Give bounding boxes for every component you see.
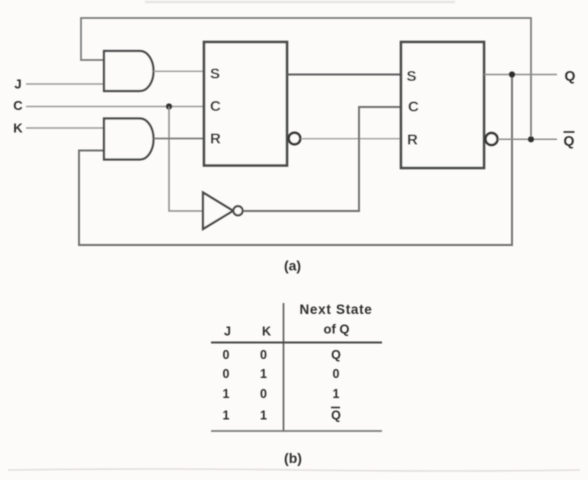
svg-text:0: 0 bbox=[260, 387, 267, 401]
svg-text:K: K bbox=[13, 121, 23, 136]
svg-text:R: R bbox=[210, 131, 221, 148]
svg-text:1: 1 bbox=[223, 409, 230, 423]
SR latch U1 bbox=[204, 42, 287, 166]
wire: U2 Q output bbox=[484, 74, 557, 76]
wire: U1 Q-bar to U2 pin R bbox=[301, 138, 401, 140]
svg-text:K: K bbox=[262, 325, 271, 339]
table row 1: J=0 K=0 next=Q bbox=[223, 348, 342, 362]
wire: Q feedback (bottom loop to gate G2) bbox=[79, 77, 512, 245]
table row 2: J=0 K=1 next=0 bbox=[223, 367, 340, 381]
junction: Q output tap to bottom feedback bbox=[509, 71, 515, 77]
wire: C tap down to inverter input bbox=[169, 107, 203, 212]
wire: U1 Q output to U2 pin S bbox=[287, 74, 401, 76]
svg-text:Q: Q bbox=[331, 348, 341, 362]
table row 4: J=1 K=1 next=Q-bar bbox=[223, 408, 342, 423]
junction: Q-bar output tap to top feedback bbox=[528, 136, 534, 142]
svg-text:(b): (b) bbox=[284, 450, 302, 466]
svg-text:0: 0 bbox=[260, 348, 267, 362]
svg-text:J: J bbox=[224, 325, 231, 339]
svg-text:R: R bbox=[407, 132, 418, 149]
svg-text:Q: Q bbox=[564, 133, 575, 149]
inverter U3 bbox=[203, 193, 233, 230]
wire: inverter output up to U2 pin C bbox=[243, 107, 401, 211]
scan artifact: faint top edge smudge bbox=[145, 1, 455, 4]
svg-text:0: 0 bbox=[223, 348, 230, 362]
svg-text:0: 0 bbox=[333, 367, 340, 381]
table header rule bbox=[211, 342, 382, 344]
svg-text:C: C bbox=[210, 98, 221, 115]
AND gate G2 bbox=[104, 119, 154, 160]
wire: Q-bar feedback (top loop to gate G1) bbox=[81, 18, 531, 136]
svg-text:Q: Q bbox=[565, 68, 576, 84]
svg-text:1: 1 bbox=[223, 387, 230, 401]
scan artifact: faint streak near bottom bbox=[8, 469, 580, 471]
U2 Q-bar output bubble bbox=[486, 133, 498, 145]
table row 3: J=1 K=0 next=1 bbox=[223, 387, 340, 401]
SR latch U2 bbox=[401, 42, 484, 168]
svg-text:S: S bbox=[210, 66, 220, 83]
output label Q-bar bbox=[564, 132, 575, 149]
svg-text:1: 1 bbox=[333, 387, 340, 401]
wire: G1 output to U1 pin S bbox=[154, 70, 205, 72]
svg-text:1: 1 bbox=[260, 367, 267, 381]
svg-text:0: 0 bbox=[223, 367, 230, 381]
wire J input bbox=[26, 83, 104, 85]
junction: C line tap to inverter bbox=[166, 103, 172, 109]
svg-text:J: J bbox=[14, 77, 21, 92]
svg-text:of Q: of Q bbox=[324, 322, 350, 337]
inverter U3 output bubble bbox=[233, 206, 242, 215]
svg-text:(a): (a) bbox=[284, 258, 301, 274]
wire C clock input bbox=[26, 106, 204, 108]
svg-text:1: 1 bbox=[260, 409, 267, 423]
svg-text:C: C bbox=[408, 99, 419, 116]
AND gate G1 bbox=[104, 51, 154, 91]
U1 Q-bar output bubble bbox=[289, 133, 301, 145]
svg-text:Q: Q bbox=[331, 409, 341, 423]
wire: G2 output to U1 pin R bbox=[154, 138, 205, 140]
wire: U2 Q-bar output bbox=[498, 138, 557, 140]
svg-text:Next State: Next State bbox=[299, 302, 372, 317]
table bottom rule bbox=[211, 430, 382, 432]
svg-text:S: S bbox=[407, 68, 417, 85]
svg-text:C: C bbox=[13, 98, 23, 113]
table column divider line bbox=[283, 303, 285, 432]
wire K input bbox=[26, 127, 104, 129]
